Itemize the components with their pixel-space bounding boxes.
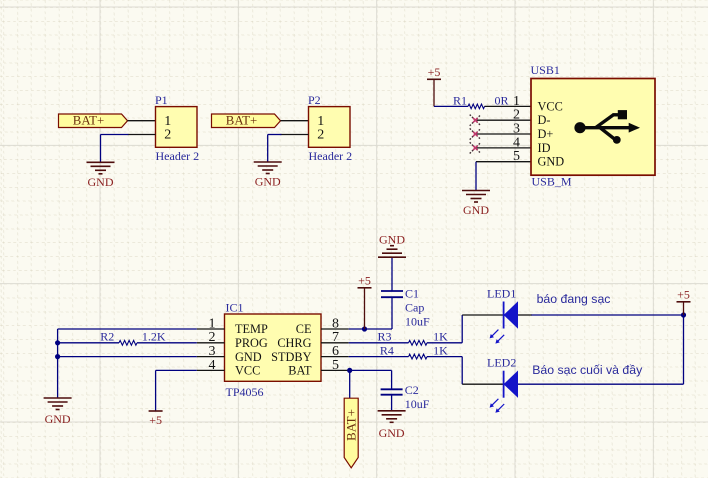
svg-text:GND: GND: [88, 175, 114, 189]
svg-text:2: 2: [209, 330, 216, 345]
svg-text:2: 2: [317, 128, 324, 143]
svg-text:Header 2: Header 2: [156, 149, 200, 163]
svg-text:D-: D-: [538, 113, 551, 127]
svg-text:R4: R4: [380, 343, 394, 357]
svg-text:PROG: PROG: [235, 336, 268, 350]
svg-text:C2: C2: [405, 383, 419, 397]
svg-text:báo đang sạc: báo đang sạc: [537, 292, 611, 306]
svg-text:GND: GND: [379, 426, 405, 440]
svg-text:1: 1: [209, 316, 216, 331]
svg-text:R2: R2: [100, 330, 114, 344]
svg-text:4: 4: [209, 358, 216, 373]
svg-text:BAT: BAT: [288, 364, 312, 378]
svg-text:10uF: 10uF: [405, 314, 430, 328]
svg-text:1K: 1K: [433, 343, 448, 357]
svg-text:BAT+: BAT+: [344, 409, 359, 441]
svg-text:VCC: VCC: [235, 364, 260, 378]
svg-text:R3: R3: [377, 330, 391, 344]
svg-text:8: 8: [332, 316, 339, 331]
svg-text:1: 1: [164, 114, 171, 129]
svg-text:CHRG: CHRG: [277, 336, 311, 350]
svg-text:1K: 1K: [433, 330, 448, 344]
svg-text:LED2: LED2: [487, 355, 516, 369]
svg-text:TEMP: TEMP: [235, 322, 268, 336]
svg-text:BAT+: BAT+: [226, 114, 257, 128]
svg-text:USB1: USB1: [531, 63, 560, 77]
svg-text:1: 1: [513, 94, 520, 109]
svg-text:ID: ID: [538, 141, 551, 155]
svg-text:GND: GND: [235, 350, 262, 364]
svg-text:D+: D+: [538, 127, 554, 141]
svg-text:1.2K: 1.2K: [142, 330, 166, 344]
svg-text:CE: CE: [296, 322, 312, 336]
svg-text:GND: GND: [45, 412, 71, 426]
svg-text:5: 5: [332, 358, 339, 373]
svg-text:P1: P1: [155, 93, 168, 107]
svg-text:Header 2: Header 2: [309, 149, 353, 163]
svg-text:TP4056: TP4056: [226, 385, 264, 399]
svg-text:7: 7: [332, 330, 339, 345]
svg-text:0R: 0R: [495, 93, 509, 107]
svg-text:IC1: IC1: [226, 301, 244, 315]
svg-text:C1: C1: [405, 287, 419, 301]
svg-text:BAT+: BAT+: [73, 114, 104, 128]
svg-text:GND: GND: [255, 175, 281, 189]
svg-text:GND: GND: [538, 155, 565, 169]
svg-text:10uF: 10uF: [405, 397, 430, 411]
svg-text:LED1: LED1: [487, 287, 516, 301]
svg-text:USB_M: USB_M: [532, 175, 572, 189]
svg-text:3: 3: [209, 344, 216, 359]
svg-text:2: 2: [164, 128, 171, 143]
svg-text:Báo sạc cuối và đầy: Báo sạc cuối và đầy: [532, 363, 643, 377]
svg-text:GND: GND: [463, 203, 489, 217]
svg-text:STDBY: STDBY: [271, 350, 311, 364]
svg-text:VCC: VCC: [538, 99, 563, 113]
svg-text:6: 6: [332, 344, 339, 359]
svg-text:+5: +5: [677, 288, 690, 302]
svg-text:P2: P2: [308, 93, 321, 107]
svg-text:1: 1: [317, 114, 324, 129]
svg-text:R1: R1: [453, 93, 467, 107]
svg-text:+5: +5: [358, 274, 371, 288]
svg-text:+5: +5: [149, 413, 162, 427]
svg-text:Cap: Cap: [405, 300, 424, 314]
svg-text:GND: GND: [379, 232, 405, 246]
svg-text:+5: +5: [428, 65, 441, 79]
